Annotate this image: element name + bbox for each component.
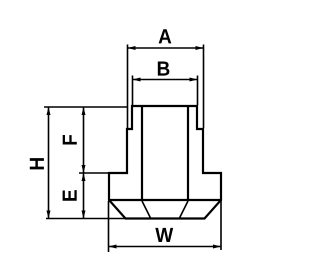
arrow A right (196, 46, 204, 50)
dimension line F/E (83, 107, 85, 219)
dimension line W (109, 246, 222, 248)
dimension line B (133, 79, 198, 81)
arrow A left (128, 46, 136, 50)
extension line B right (197, 76, 199, 106)
arrow B left (133, 78, 141, 82)
inner chamfer edge left (142, 201, 151, 218)
extension line W left (108, 201, 110, 252)
extension line A left (127, 45, 129, 129)
extension line flange top (79, 172, 108, 174)
label B (158, 61, 170, 75)
arrow W left (109, 245, 117, 249)
extension line B left (132, 76, 134, 106)
arrow B right (190, 78, 198, 82)
inner chamfer edge right (180, 201, 189, 218)
dimension line H (48, 107, 50, 219)
arrow E bottom (82, 211, 86, 219)
label H (30, 158, 44, 169)
flange/foot separation edge (108, 199, 222, 201)
arrow W right (213, 245, 221, 249)
part outline (T-nut body profile) (109, 106, 221, 219)
arrow F bottom (82, 165, 86, 173)
dimension line A (128, 47, 204, 49)
arrow F top (82, 107, 86, 115)
extension line top face (44, 106, 127, 108)
extension line A right (203, 45, 205, 129)
label E (63, 190, 77, 201)
bore line left (141, 106, 143, 200)
arrow E top (82, 173, 86, 181)
label F (63, 135, 77, 145)
extension line W right (220, 201, 222, 250)
label A (159, 29, 172, 43)
arrow H bottom (47, 211, 51, 219)
arrow H top (47, 107, 51, 115)
bore line right (187, 106, 189, 200)
label W (155, 228, 173, 242)
extension line bottom face (46, 218, 125, 220)
